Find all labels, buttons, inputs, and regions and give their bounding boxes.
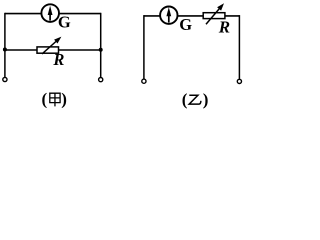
wire: circuit 乙 right vertical [238, 15, 240, 79]
rheostat R (circuit 甲) arrow [42, 37, 61, 54]
wire: circuit 乙 left vertical [143, 15, 145, 79]
svg-text:): ) [61, 90, 67, 109]
svg-text:(: ( [182, 90, 188, 109]
rheostat R (circuit 乙) body [203, 13, 225, 19]
svg-text:): ) [203, 90, 209, 109]
svg-text:G: G [58, 13, 71, 32]
wire: circuit 乙 top horizontal [144, 15, 240, 17]
rheostat R (circuit 乙) arrow [206, 3, 224, 24]
wire: circuit 甲 top horizontal [5, 13, 101, 15]
svg-text:G: G [179, 15, 192, 34]
svg-text:(: ( [42, 90, 48, 109]
wire: circuit 甲 right vertical [100, 13, 102, 78]
terminal: circuit 乙 right [237, 79, 241, 83]
wire: circuit 甲 left vertical [4, 13, 6, 78]
svg-text:R: R [218, 17, 230, 36]
node: junction right of circuit 甲 [99, 48, 103, 52]
wire: circuit 甲 lower branch through R [5, 49, 101, 51]
caption (甲) [42, 90, 67, 109]
galvanometer G (circuit 甲) needle [48, 6, 53, 21]
terminal: circuit 甲 left [3, 77, 7, 81]
caption (乙) [182, 90, 209, 109]
galvanometer G (circuit 乙) body [160, 7, 177, 24]
terminal: circuit 乙 left [142, 79, 146, 83]
galvanometer G (circuit 甲) body [41, 4, 59, 22]
rheostat R (circuit 甲) body [37, 47, 59, 53]
node: junction left of circuit 甲 [3, 48, 7, 52]
galvanometer G (circuit 乙) needle [166, 7, 171, 22]
terminal: circuit 甲 right [99, 78, 103, 82]
svg-text:R: R [52, 50, 64, 69]
